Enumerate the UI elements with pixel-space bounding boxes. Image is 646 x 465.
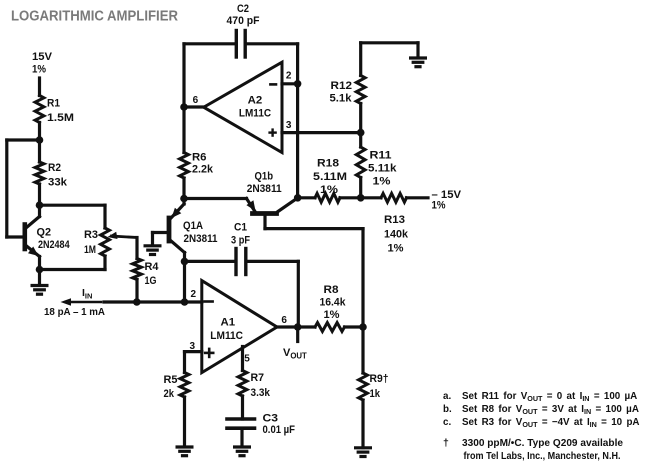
wire bbox=[361, 196, 381, 199]
wire bbox=[248, 260, 299, 263]
svg-text:1.5M: 1.5M bbox=[47, 112, 74, 124]
svg-text:Q1A: Q1A bbox=[183, 220, 203, 232]
svg-text:R18: R18 bbox=[317, 158, 339, 170]
resistor R7 bbox=[238, 371, 247, 397]
wire bbox=[241, 396, 244, 419]
svg-text:A2: A2 bbox=[248, 95, 263, 107]
wire bbox=[184, 197, 247, 200]
svg-text:C2: C2 bbox=[237, 3, 249, 15]
wire bbox=[359, 178, 362, 198]
junction dot bbox=[294, 80, 302, 88]
svg-text:1%: 1% bbox=[320, 184, 338, 196]
svg-text:2: 2 bbox=[191, 289, 197, 300]
svg-text:5.11k: 5.11k bbox=[368, 163, 398, 175]
transistor Q2 emitter arrow bbox=[28, 247, 39, 257]
resistor R6 bbox=[180, 153, 189, 179]
op-amp A2 minus input mark bbox=[270, 83, 276, 86]
resistor R1 bbox=[35, 96, 44, 123]
svg-text:C1: C1 bbox=[234, 222, 247, 234]
wire bbox=[103, 205, 106, 228]
svg-text:1G: 1G bbox=[145, 275, 157, 287]
transistor Q2 base bar bbox=[22, 225, 27, 250]
pot R3 wiper arrow bbox=[108, 232, 118, 239]
wire bbox=[240, 428, 243, 447]
svg-text:LM11C: LM11C bbox=[210, 330, 243, 342]
svg-text:2N3811: 2N3811 bbox=[184, 233, 218, 245]
wire bbox=[278, 325, 315, 328]
wire bbox=[183, 397, 186, 447]
svg-text:18 pA – 1 mA: 18 pA – 1 mA bbox=[44, 307, 106, 318]
wire bbox=[182, 178, 185, 199]
wire bbox=[185, 260, 235, 263]
svg-text:1k: 1k bbox=[370, 388, 381, 400]
svg-text:1%: 1% bbox=[388, 243, 404, 255]
op-amp A1 bbox=[202, 281, 277, 373]
svg-text:6: 6 bbox=[281, 315, 287, 326]
svg-text:2N3811: 2N3811 bbox=[247, 183, 282, 195]
wire bbox=[282, 131, 361, 134]
svg-text:a.: a. bbox=[443, 391, 451, 402]
svg-text:†: † bbox=[443, 437, 449, 449]
svg-text:0.01 µF: 0.01 µF bbox=[263, 424, 296, 436]
svg-text:R9†: R9† bbox=[370, 373, 389, 385]
junction dot bbox=[180, 103, 188, 111]
capacitor C3 bbox=[227, 417, 255, 421]
wire bbox=[40, 204, 106, 207]
wire bbox=[359, 104, 362, 148]
resistor R2 bbox=[35, 162, 44, 184]
svg-text:C3: C3 bbox=[263, 412, 279, 424]
svg-text:16.4k: 16.4k bbox=[320, 297, 347, 309]
op-amp A2 bbox=[204, 62, 282, 152]
svg-text:6: 6 bbox=[193, 95, 199, 106]
svg-text:R5: R5 bbox=[164, 374, 178, 386]
resistor R4 bbox=[133, 259, 142, 280]
svg-text:140k: 140k bbox=[384, 229, 409, 241]
wire bbox=[7, 235, 23, 238]
wire bbox=[38, 123, 41, 163]
wire bbox=[103, 256, 106, 270]
junction dot bbox=[357, 129, 365, 137]
svg-text:R13: R13 bbox=[384, 214, 405, 226]
svg-text:R4: R4 bbox=[145, 261, 159, 273]
svg-text:LOGARITHMIC AMPLIFIER: LOGARITHMIC AMPLIFIER bbox=[11, 8, 178, 25]
wire bbox=[297, 261, 300, 327]
svg-text:5: 5 bbox=[244, 354, 250, 365]
svg-text:2k: 2k bbox=[164, 388, 175, 400]
svg-text:A1: A1 bbox=[221, 317, 236, 329]
svg-text:33k: 33k bbox=[48, 177, 68, 189]
transistor Q2 emitter bbox=[27, 246, 40, 257]
svg-text:from Tel Labs, Inc., Mancheste: from Tel Labs, Inc., Manchester, N.H. bbox=[464, 451, 621, 462]
svg-text:2.2k: 2.2k bbox=[192, 164, 214, 176]
wire bbox=[340, 196, 361, 199]
junction dot bbox=[294, 194, 302, 202]
resistor R11 bbox=[356, 147, 365, 178]
svg-text:c.: c. bbox=[443, 417, 451, 428]
svg-text:3.3k: 3.3k bbox=[251, 387, 271, 399]
resistor R8 bbox=[315, 323, 345, 332]
svg-text:1%: 1% bbox=[432, 200, 446, 212]
wire bbox=[361, 41, 418, 44]
op-amp A2 plus input mark bbox=[270, 131, 276, 133]
transistor Q1b emitter arrow bbox=[246, 200, 255, 211]
op-amp A1 plus input mark bbox=[205, 352, 213, 355]
wire bbox=[185, 350, 202, 353]
junction dot bbox=[359, 323, 367, 331]
svg-text:Set R3 for VOUT = −4V at IIN =: Set R3 for VOUT = −4V at IIN = 10 pA bbox=[462, 417, 640, 429]
transistor Q1A base bar bbox=[167, 218, 172, 241]
wire bbox=[241, 347, 244, 371]
transistor Q1b emitter bbox=[247, 199, 256, 212]
svg-text:1%: 1% bbox=[373, 176, 391, 188]
wire bbox=[38, 184, 41, 217]
wire bbox=[183, 261, 186, 302]
svg-text:3: 3 bbox=[286, 120, 292, 131]
wire bbox=[361, 400, 364, 448]
svg-text:15V: 15V bbox=[32, 51, 53, 63]
svg-text:1M: 1M bbox=[84, 244, 96, 256]
svg-text:Q1b: Q1b bbox=[255, 171, 274, 183]
transistor Q1A collector bbox=[171, 241, 185, 253]
junction dot bbox=[181, 298, 189, 306]
wire bbox=[263, 214, 266, 229]
current arrow IIN bbox=[66, 301, 101, 304]
svg-text:R11: R11 bbox=[370, 150, 392, 162]
resistor R9 bbox=[359, 373, 368, 400]
transistor Q1A emitter arrow bbox=[172, 208, 182, 218]
wire bbox=[104, 300, 202, 303]
ground bbox=[31, 284, 49, 287]
wire bbox=[135, 238, 138, 259]
svg-text:5.11M: 5.11M bbox=[313, 171, 347, 183]
junction dot bbox=[180, 195, 188, 203]
svg-text:R12: R12 bbox=[331, 80, 353, 92]
svg-text:Set R11 for VOUT = 0 at IIN =: Set R11 for VOUT = 0 at IIN = 100 µA bbox=[462, 391, 637, 403]
junction dot bbox=[133, 298, 141, 306]
wire bbox=[135, 280, 138, 303]
resistor R18 bbox=[315, 193, 340, 202]
wire bbox=[282, 82, 298, 85]
wire bbox=[182, 44, 185, 153]
wire bbox=[5, 140, 8, 237]
svg-text:R3: R3 bbox=[84, 229, 98, 241]
junction dot bbox=[36, 266, 44, 274]
svg-text:5.1k: 5.1k bbox=[330, 93, 353, 105]
svg-text:Set R8 for VOUT = 3V at IIN =: Set R8 for VOUT = 3V at IIN = 100 µA bbox=[462, 404, 639, 416]
transistor Q1b collector bbox=[278, 198, 298, 212]
svg-text:LM11C: LM11C bbox=[239, 108, 271, 120]
wire bbox=[184, 42, 235, 45]
resistor R12 bbox=[356, 76, 365, 104]
svg-text:R2: R2 bbox=[48, 162, 61, 174]
wire bbox=[151, 233, 154, 246]
ground bbox=[409, 56, 427, 59]
svg-text:1%: 1% bbox=[324, 309, 340, 321]
wire bbox=[359, 43, 362, 76]
resistor R13 bbox=[381, 193, 407, 202]
resistor R3 (pot) bbox=[101, 228, 110, 256]
transistor Q2 collector bbox=[27, 217, 40, 228]
svg-text:3 pF: 3 pF bbox=[231, 235, 250, 247]
svg-text:2: 2 bbox=[286, 70, 292, 81]
junction dot bbox=[294, 323, 302, 331]
op-amp A1 minus input mark bbox=[205, 300, 213, 303]
junction dot bbox=[181, 258, 189, 266]
transistor Q1b base bar bbox=[253, 211, 277, 216]
capacitor C1 bbox=[234, 249, 237, 275]
resistor R5 bbox=[180, 373, 189, 398]
transistor Q1A emitter bbox=[182, 199, 185, 205]
svg-text:R1: R1 bbox=[47, 98, 60, 110]
wire bbox=[40, 268, 106, 271]
wire bbox=[247, 42, 298, 45]
ground bbox=[144, 244, 162, 247]
capacitor C2 bbox=[235, 31, 238, 58]
junction dot bbox=[36, 136, 44, 144]
wire bbox=[345, 325, 364, 328]
ground bbox=[233, 445, 251, 448]
wire bbox=[38, 78, 41, 96]
ground bbox=[176, 445, 194, 448]
svg-text:1%: 1% bbox=[32, 64, 46, 76]
wire bbox=[184, 105, 204, 108]
wire bbox=[38, 257, 41, 286]
svg-text:b.: b. bbox=[443, 404, 452, 415]
svg-text:470 pF: 470 pF bbox=[227, 15, 260, 27]
svg-text:Q2: Q2 bbox=[37, 227, 52, 239]
wire bbox=[183, 352, 186, 373]
svg-text:R6: R6 bbox=[192, 152, 207, 164]
wire bbox=[265, 227, 363, 230]
wire bbox=[296, 44, 299, 198]
ground bbox=[354, 446, 372, 449]
junction dot bbox=[36, 201, 44, 209]
svg-text:3300 ppM/•C. Type Q209 availab: 3300 ppM/•C. Type Q209 available bbox=[462, 438, 624, 449]
svg-text:R7: R7 bbox=[251, 372, 265, 384]
svg-text:2N2484: 2N2484 bbox=[38, 239, 70, 251]
wire Q1A base bbox=[153, 231, 168, 234]
wire bbox=[416, 43, 419, 58]
wire bbox=[407, 196, 429, 199]
wire VOUT stub bbox=[296, 327, 299, 342]
wire bbox=[7, 138, 40, 141]
svg-text:R8: R8 bbox=[324, 284, 339, 296]
wire bbox=[361, 229, 364, 373]
wire bbox=[298, 196, 315, 199]
junction dot bbox=[357, 194, 365, 202]
